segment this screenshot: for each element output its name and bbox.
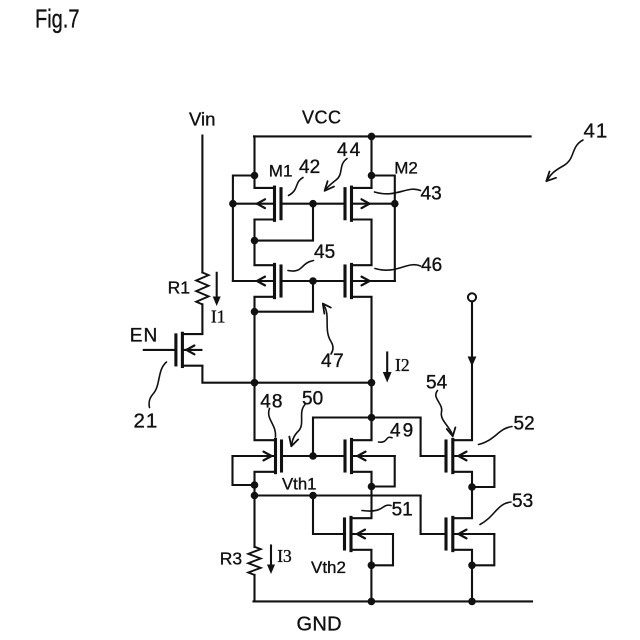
resistor R3 [248,547,260,575]
transistor 46 (PMOS): bulk arrow [362,277,370,286]
transistor 51 (NMOS): channel bar [349,517,352,550]
transistor M2 (PMOS): bulk line [352,203,395,205]
svg-text:M2: M2 [394,158,418,177]
ref leader 48 [269,409,276,438]
transistor 53 (NMOS): bulk arrow [459,530,467,539]
transistor M1 (PMOS): channel bar [273,187,276,220]
svg-text:49: 49 [390,421,415,442]
transistor 48 (NMOS): bulk arrow [264,452,272,461]
wire: 49 source down to 51 drain (crosses Vth1 rail) [370,473,372,518]
svg-text:43: 43 [421,184,442,205]
transistor 52 (NMOS): channel bar [451,439,454,472]
ref leader M2 none / leader 45 [288,261,314,272]
transistor Q21 (EN switch, NMOS): bulk line [182,349,201,351]
svg-text:47: 47 [321,351,345,372]
ref leader 49 [379,437,393,442]
ref arrow 44 [326,159,347,190]
ref leader 42 [289,178,304,196]
transistor 48 (NMOS): gate bar [280,441,283,471]
transistor 45 (PMOS): channel bar [273,264,276,297]
wire: R1 to EN transistor drain [201,304,203,333]
svg-text:I2: I2 [395,355,410,375]
ref leader 51 [362,505,391,511]
ref leader 46 [375,265,421,270]
transistor 46 (PMOS): bulk line [352,280,395,282]
transistor 51 (NMOS): source/drain bracket [351,518,371,550]
svg-text:Fig.7: Fig.7 [35,3,80,33]
transistor 52 (NMOS): bulk line [453,455,495,457]
transistor M2 (PMOS): source/drain bracket [352,188,372,220]
wire: 45-46 gate line [281,280,345,282]
svg-text:51: 51 [392,500,413,521]
wire: 53 bulk return to source [472,534,494,565]
transistor 51 (NMOS): gate bar [343,519,346,549]
ref arrow 54 [436,391,452,434]
wire: M1 gate-feedback tie (source to bulk) [233,176,255,282]
transistor 52 (NMOS): source/drain bracket [453,440,472,472]
svg-text:I3: I3 [277,546,292,566]
transistor Q21 (EN switch, NMOS): source/drain bracket [182,334,202,366]
transistor 45 (PMOS): gate bar [279,266,282,296]
current arrow I1 [216,273,218,299]
transistor 52 (NMOS): gate bar [444,441,447,471]
wire: I2 node down to 49 drain [370,383,372,440]
node Vin: input line [201,136,203,273]
svg-text:VCC: VCC [302,108,342,128]
wire: 48 bulk return to source [233,456,255,485]
wire: 51 bulk return to source [371,534,393,565]
transistor 45 (PMOS): bulk line [233,280,275,282]
transistor 45 (PMOS): bulk arrow [257,277,265,286]
transistor M1 (PMOS): bulk line [233,203,275,205]
wire: 52 bulk return to source [472,456,494,487]
transistor 49 (NMOS): channel bar [350,439,353,472]
transistor 48 (NMOS): bulk line [233,455,276,457]
transistor M2 (PMOS): channel bar [350,187,353,220]
transistor M2 (PMOS): bulk arrow [362,199,370,208]
VCC rail wire [254,135,531,137]
transistor 49 (NMOS): bulk arrow [358,452,366,461]
wire: 52 source down to 53 drain [471,473,473,518]
svg-text:21: 21 [134,409,159,432]
ref arrow 50 [292,405,305,445]
transistor 53 (NMOS): source/drain bracket [453,518,472,550]
wire: M1 drain to 45 source [253,220,255,265]
transistor 49 (NMOS): bulk line [352,455,395,457]
resistor R1 [196,273,208,305]
ref leader 52 [479,427,513,445]
transistor M2 (PMOS): gate bar [343,189,346,219]
wire: 52 gate lead [421,455,446,457]
wire: M2 bulk-to-source tie [372,176,395,282]
svg-text:R1: R1 [168,278,190,298]
transistor M1 (PMOS): source/drain bracket [255,188,275,220]
GND rail wire [254,600,533,602]
wire: 53 source to GND [471,551,473,602]
transistor 49 (NMOS): source/drain bracket [352,440,372,472]
wire: 45 drain down to EN-source rail [253,297,255,439]
svg-text:54: 54 [426,373,448,394]
svg-text:Vth2: Vth2 [311,558,346,577]
wire: VCC to M1 source [253,136,255,187]
svg-text:Vth1: Vth1 [282,474,316,493]
current arrow I3 [270,546,272,567]
transistor Q21 (EN switch, NMOS): bulk arrow [186,346,194,355]
transistor M1 (PMOS): bulk arrow [257,199,265,208]
svg-text:45: 45 [314,242,335,263]
svg-text:48: 48 [260,392,283,413]
transistor Q21 (EN switch, NMOS): channel bar [181,333,184,366]
wire: M2 drain to 46 source [370,220,372,265]
svg-text:M1: M1 [269,162,293,181]
svg-text:52: 52 [514,414,535,435]
svg-text:EN: EN [130,325,158,346]
svg-text:I1: I1 [211,307,226,327]
svg-text:46: 46 [421,255,442,276]
wire: 49 bulk return to source [372,456,395,487]
wire: EN source to I2 node rail [202,367,371,383]
transistor 46 (PMOS): channel bar [350,264,353,297]
svg-text:R3: R3 [220,549,242,569]
ref leader 53 [480,502,511,525]
transistor M1 (PMOS): gate bar [279,189,282,219]
current arrow on output line [468,357,477,367]
wire: 45 diode connection (gate to drain) [255,281,314,312]
transistor 53 (NMOS): channel bar [451,517,454,550]
transistor 51 (NMOS): bulk arrow [357,530,365,539]
ref arrow 41 [548,140,583,179]
svg-text:41: 41 [584,120,609,143]
node Vth1: rail wire [255,494,421,496]
wire: 51 source to GND [370,551,372,602]
svg-text:42: 42 [299,157,320,178]
svg-text:44: 44 [337,140,362,161]
wire: VCC to M2 source [370,136,372,187]
ref leader 21 [149,362,166,408]
wire: gate node tap from I2 line [313,418,421,457]
output terminal circle [468,293,476,301]
transistor Q21 (EN switch, NMOS): gate bar [174,335,177,365]
wire: 48 source to Vth1 rail and R3 [253,473,255,547]
transistor 53 (NMOS): gate bar [444,519,447,549]
current arrow I2 [386,353,388,375]
transistor 46 (PMOS): source/drain bracket [352,265,372,297]
svg-text:53: 53 [512,491,533,512]
svg-text:50: 50 [302,389,323,410]
wire: 46 drain down to I2 node and 49 drain [370,297,372,439]
wire: 53 gate tap from Vth1 [421,496,446,535]
wire: 48-49 gate line [282,455,346,457]
transistor 52 (NMOS): bulk arrow [459,452,467,461]
wire: output terminal to 52 drain [471,301,473,439]
transistor 53 (NMOS): bulk line [453,533,495,535]
transistor 49 (NMOS): gate bar [343,441,346,471]
transistor 51 (NMOS): bulk line [351,533,393,535]
wire: 51 gate tap from Vth1 [313,496,345,535]
ref leader 43 [375,189,421,194]
transistor 46 (PMOS): gate bar [343,266,346,296]
svg-text:GND: GND [297,614,342,636]
wire: M1-M2 gate line [281,203,345,205]
wire: EN gate lead [144,349,176,351]
ref arrow 47 [324,306,333,355]
wire: M1 diode connection (gate to drain) [255,204,314,241]
svg-text:Vin: Vin [189,109,215,130]
transistor 45 (PMOS): source/drain bracket [255,265,275,297]
transistor 48 (NMOS): channel bar [274,439,277,472]
transistor 48 (NMOS): source/drain bracket [255,440,276,472]
wire: R3 to GND [253,575,255,602]
